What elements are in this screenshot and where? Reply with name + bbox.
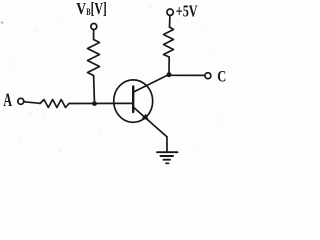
wire to C xyxy=(172,74,205,76)
emitter arrow xyxy=(142,114,149,121)
emitter line xyxy=(134,107,167,137)
transistor Q1 circle xyxy=(114,80,153,122)
svg-text:C: C xyxy=(217,69,226,86)
resistor RA xyxy=(40,100,69,108)
terminal C xyxy=(205,73,211,79)
wire xyxy=(93,30,95,40)
node B junction dot xyxy=(92,101,97,106)
wire xyxy=(169,16,171,27)
collector line xyxy=(134,75,169,92)
scan noise speckles xyxy=(1,5,219,150)
terminal A xyxy=(18,98,24,104)
wire base xyxy=(69,102,133,104)
node C junction dot xyxy=(167,72,172,77)
terminal +5V xyxy=(167,9,173,15)
label VB[V] xyxy=(76,0,107,18)
transistor base bar xyxy=(132,87,134,113)
ground xyxy=(157,152,178,163)
svg-text:A: A xyxy=(3,91,12,111)
svg-text:V: V xyxy=(76,0,86,18)
svg-text:[V]: [V] xyxy=(91,0,107,18)
terminal VB xyxy=(91,24,97,30)
resistor RC xyxy=(164,27,174,57)
wire emitter down xyxy=(166,137,168,152)
wire xyxy=(24,102,40,104)
wire xyxy=(93,76,96,104)
svg-text:+5V: +5V xyxy=(176,1,198,20)
wire collector up xyxy=(168,57,170,75)
resistor RB xyxy=(88,40,100,76)
